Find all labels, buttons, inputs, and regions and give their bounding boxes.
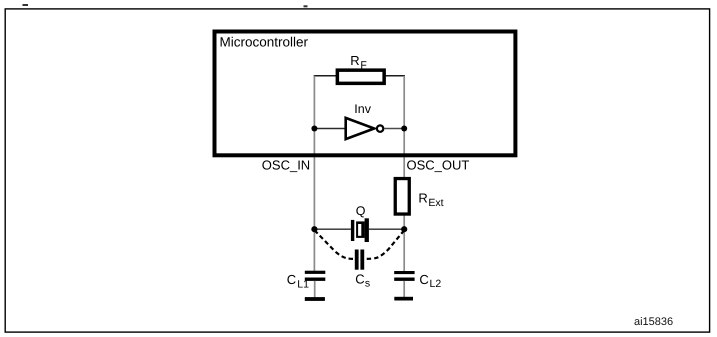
svg-text:OSC_IN: OSC_IN	[262, 157, 310, 172]
svg-text:C: C	[355, 271, 364, 286]
capacitor CL2	[394, 271, 414, 281]
svg-text:ai15836: ai15836	[634, 316, 673, 328]
wire: inverter input	[314, 128, 345, 130]
wire: inverter output	[384, 128, 404, 130]
svg-text:OSC_OUT: OSC_OUT	[407, 157, 470, 172]
wire: CL2 to ground	[403, 281, 405, 297]
resistor RF	[336, 68, 386, 85]
junction dot: inverter output node	[401, 126, 407, 132]
junction dot: right crystal node	[401, 226, 407, 232]
junction dot: inverter input node	[311, 126, 317, 132]
dashed wire: stray capacitance right	[364, 230, 404, 259]
svg-text:s: s	[365, 277, 370, 289]
wire: RF loop top-left horizontal	[314, 75, 337, 77]
wire: right vertical between RExt and node	[403, 215, 405, 271]
svg-text:L1: L1	[297, 278, 309, 290]
svg-text:Q: Q	[356, 204, 366, 218]
wire: crystal row left	[314, 228, 351, 230]
cropped text remnant top-center	[304, 5, 308, 7]
ground CL2	[394, 297, 413, 301]
svg-text:Microcontroller: Microcontroller	[220, 34, 309, 49]
cropped text remnant top-left	[23, 4, 29, 6]
op-amp/inverter Inv triangle	[346, 118, 375, 139]
dashed wire: stray capacitance left	[315, 230, 355, 259]
junction dot: left crystal node	[311, 226, 317, 232]
capacitor Cs	[355, 250, 364, 270]
svg-text:R: R	[418, 191, 427, 206]
resistor RExt	[394, 177, 411, 216]
crystal Q	[351, 218, 369, 242]
svg-text:F: F	[360, 60, 366, 72]
inverter bubble	[377, 125, 383, 131]
svg-text:Ext: Ext	[428, 197, 443, 209]
wire: CL1 to ground	[314, 281, 316, 297]
microcontroller box	[215, 32, 516, 156]
svg-text:Inv: Inv	[354, 102, 371, 116]
svg-text:C: C	[419, 272, 428, 287]
capacitor CL1	[305, 271, 326, 281]
wire: left vertical (OSC_IN net)	[313, 76, 315, 271]
svg-text:C: C	[287, 272, 296, 287]
wire: crystal row right	[369, 228, 404, 230]
svg-text:L2: L2	[430, 278, 442, 290]
wire: RF loop top-right horizontal	[385, 75, 405, 77]
svg-text:R: R	[350, 53, 359, 68]
ground CL1	[305, 297, 325, 301]
wire: right vertical upper (OSC_OUT net)	[403, 76, 405, 178]
